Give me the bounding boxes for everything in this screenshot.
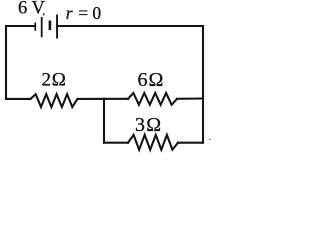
wire: bottom-left to 3-ohm resistor	[104, 142, 128, 144]
scan speck near bottom-right	[209, 139, 211, 141]
battery cell: short plate 1 (negative)	[34, 23, 36, 31]
battery cell: long plate 2 (positive)	[56, 15, 58, 39]
wire: middle-right from 6-ohm to right side	[177, 97, 203, 99]
svg-text:r= 0: r= 0	[66, 3, 102, 23]
svg-text:3Ω: 3Ω	[135, 114, 161, 136]
svg-text:6Ω: 6Ω	[138, 69, 164, 91]
resistor 3 ohm	[128, 135, 178, 150]
battery cell: long plate 1 (positive)	[41, 17, 43, 37]
svg-text:6 V: 6 V	[18, 0, 46, 19]
wire: node junction vertical down	[103, 99, 105, 143]
battery cell: short plate 2 (negative)	[49, 21, 52, 31]
wire: right side vertical	[202, 26, 204, 143]
scan speck near V	[43, 13, 45, 15]
resistor 6 ohm	[128, 93, 177, 105]
wire: top-left from corner to battery	[6, 25, 35, 27]
svg-text:2Ω: 2Ω	[42, 70, 66, 91]
resistor 2 ohm	[31, 94, 78, 107]
wire: middle between 2-ohm and 6-ohm through node	[78, 98, 129, 100]
wire: left side vertical	[5, 26, 7, 99]
wire: bottom from 3-ohm to bottom-right corner	[178, 142, 203, 144]
wire: top from battery to top-right corner	[57, 25, 203, 27]
wire: middle-left from corner to 2-ohm resistor	[6, 98, 31, 100]
